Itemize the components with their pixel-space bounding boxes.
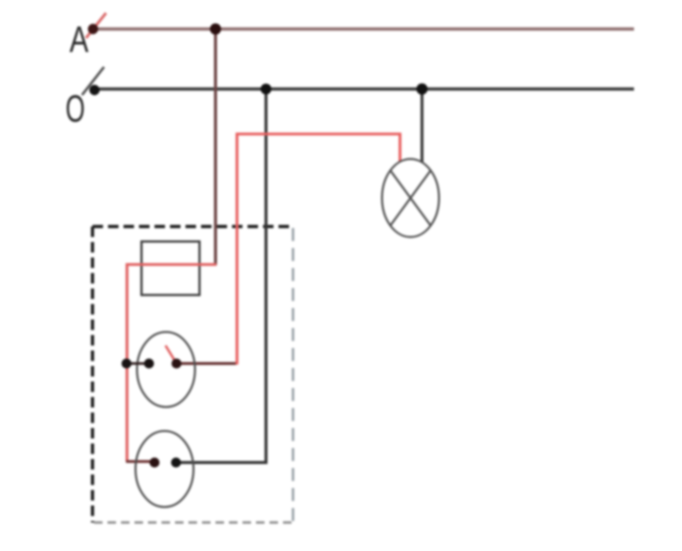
svg-text:A: A — [70, 19, 90, 61]
